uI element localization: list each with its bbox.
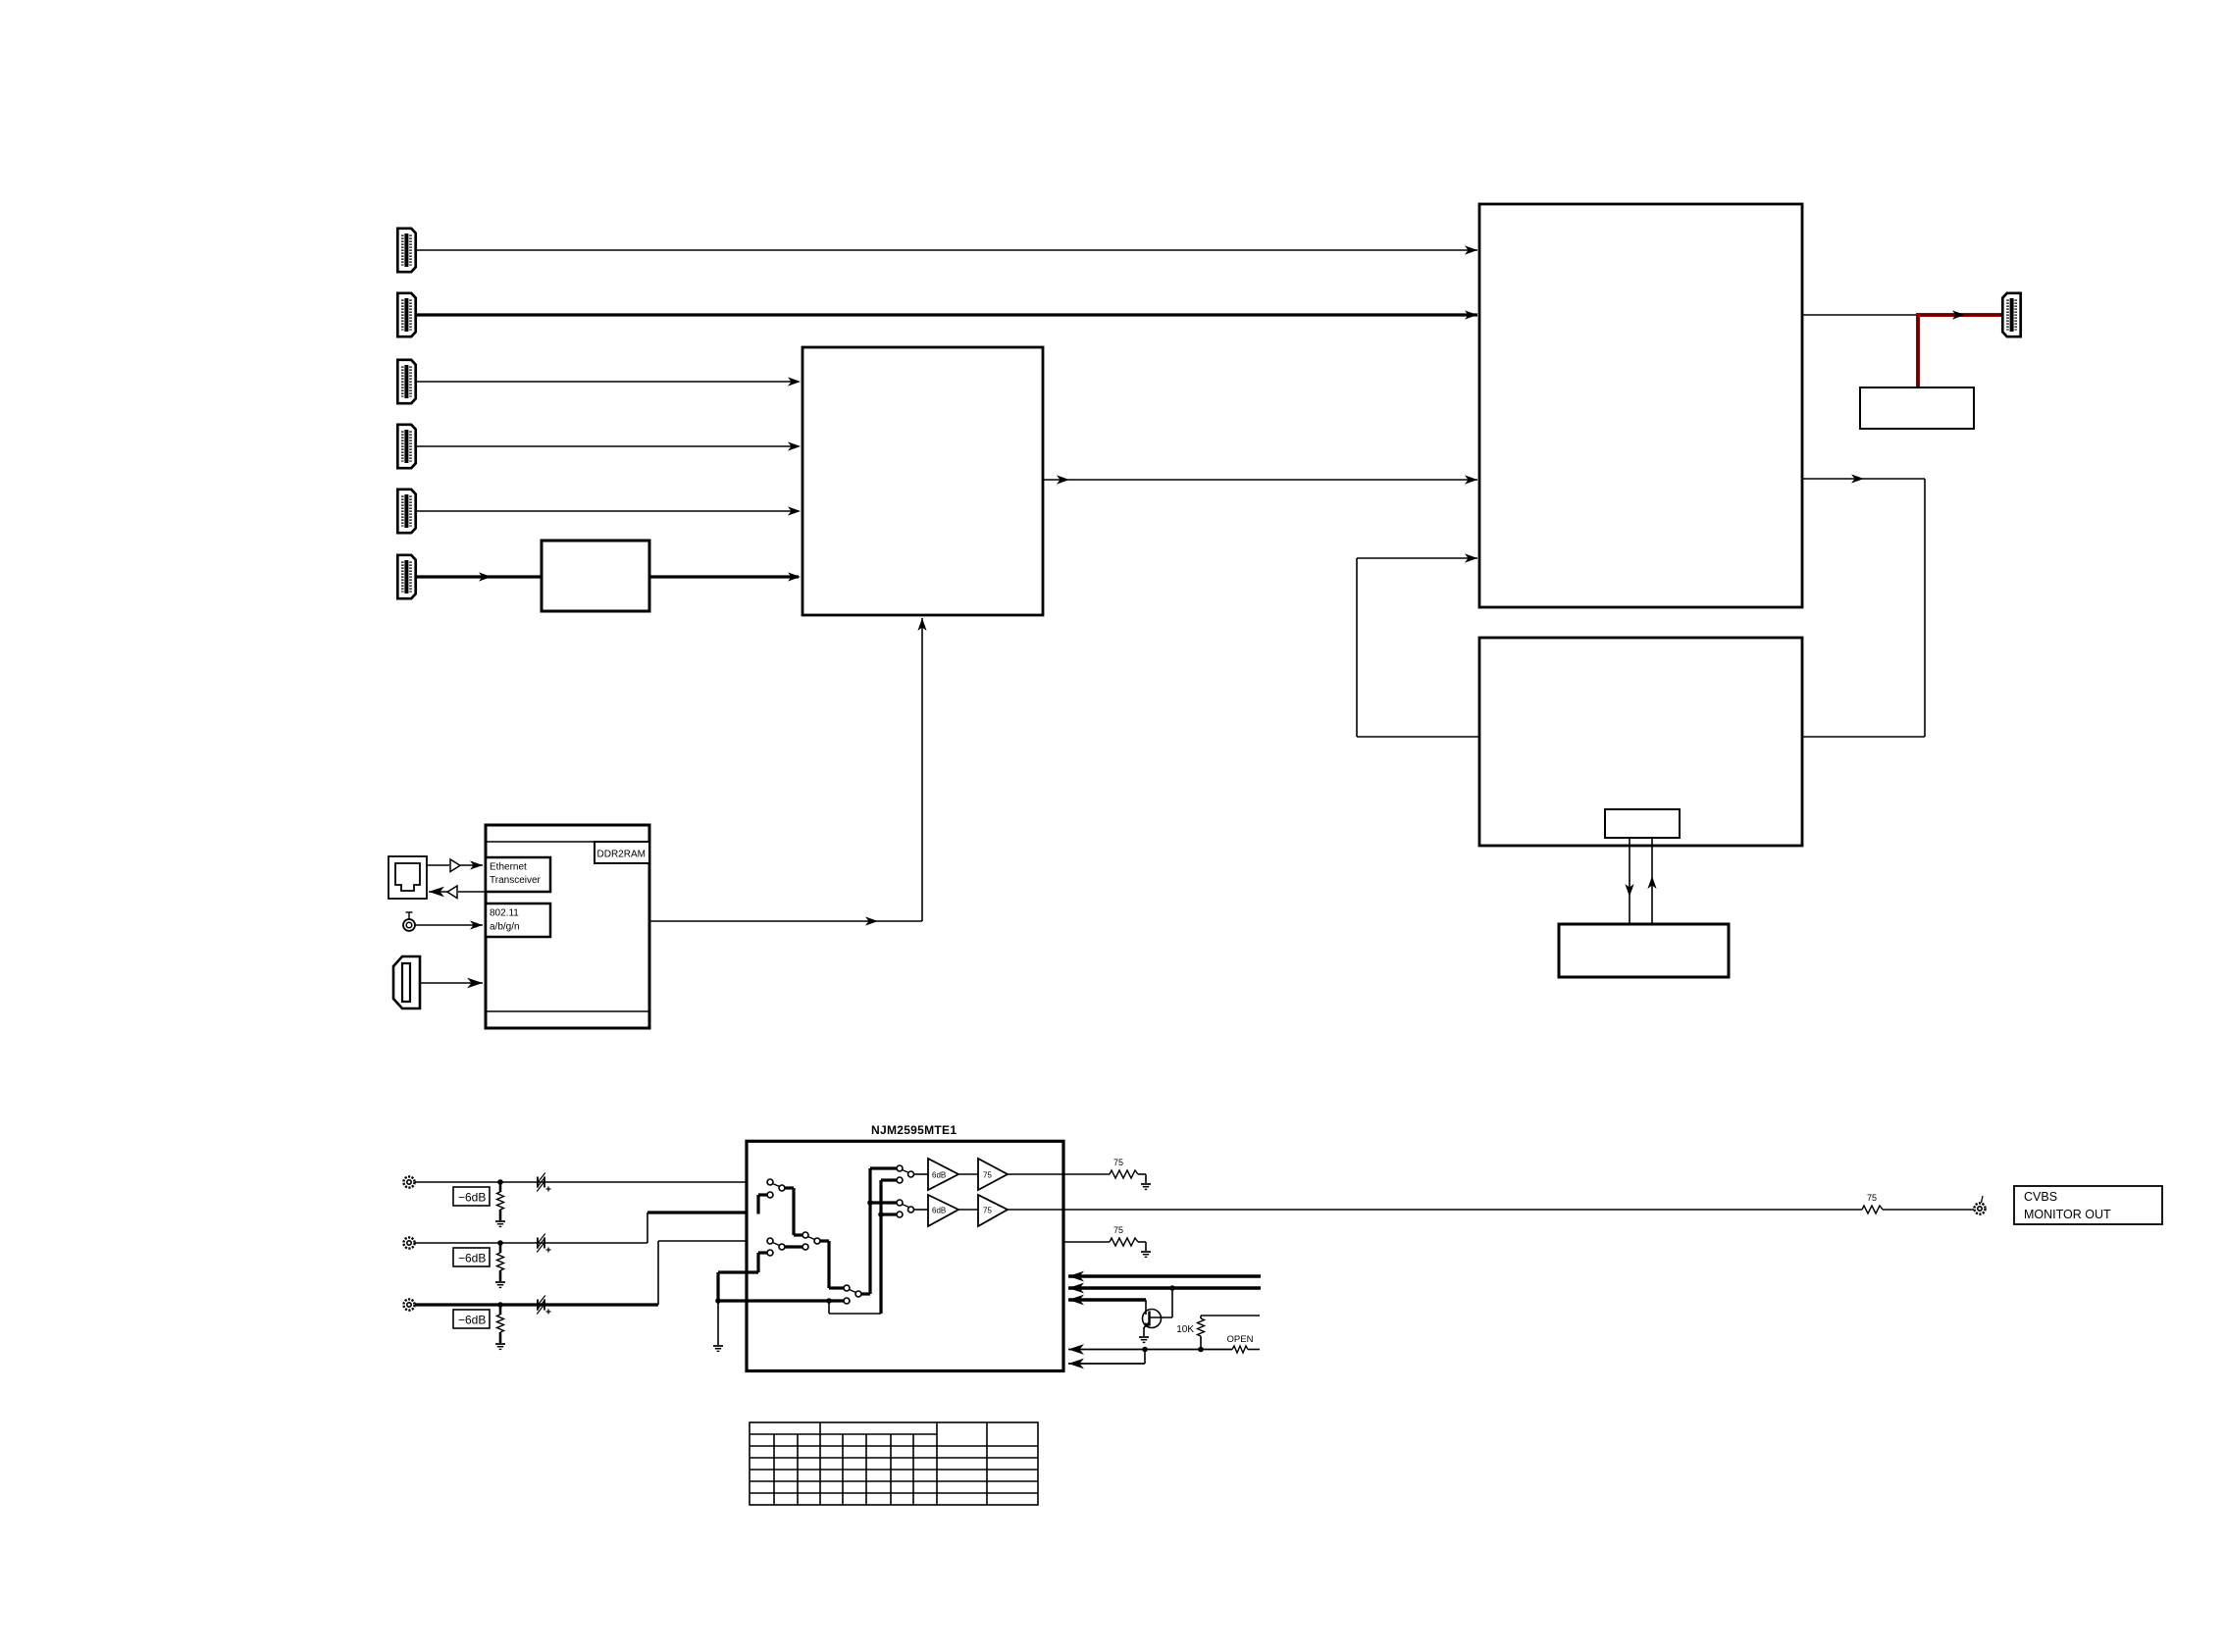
video switch IC U6 NJM2595MTE1	[747, 1141, 1063, 1370]
wire J13 toward NJM (bold)	[415, 1303, 658, 1306]
svg-text:Transceiver: Transceiver	[490, 875, 542, 886]
wire A1 to B1	[958, 1173, 978, 1175]
output selector row2 lever	[903, 1205, 909, 1208]
-6dB label box 2	[453, 1248, 490, 1266]
wire U4 to flash box (down)	[1629, 838, 1630, 924]
output selector row2 common	[897, 1200, 903, 1206]
network controller block U5	[486, 825, 649, 1028]
switch SW2a lower contact	[767, 1250, 773, 1256]
HDMI receiver block U2	[802, 347, 1043, 615]
RJ45 connector J8	[388, 856, 427, 899]
RCA jack J14 CVBS monitor	[1974, 1203, 1985, 1213]
switch SW2b common contact	[802, 1232, 808, 1238]
ground R4	[1141, 1184, 1151, 1189]
junction P2 collector	[1169, 1285, 1175, 1291]
wire P5 up to P4	[1144, 1350, 1146, 1365]
control wire P5	[1068, 1363, 1145, 1365]
svg-text:−6dB: −6dB	[458, 1191, 486, 1205]
junction input3	[497, 1302, 503, 1308]
switch SW2b lever	[808, 1237, 815, 1240]
riser1 to output selector	[868, 1168, 871, 1294]
wire J5 to U2 receiver	[417, 510, 799, 512]
RCA jack J13 (video in 3)	[403, 1299, 414, 1310]
RCA jack J11 (video in 1)	[403, 1176, 414, 1187]
termination resistor R3	[499, 1305, 502, 1315]
HDMI side connector J10	[393, 956, 420, 1008]
amp B1 75 driver	[978, 1159, 1008, 1190]
HDMI input connector J5	[397, 490, 415, 533]
riser1 top feed	[870, 1166, 897, 1169]
flash memory box	[1559, 924, 1729, 977]
wire R5 to CVBS jack	[1883, 1209, 1974, 1211]
svg-text:75: 75	[1113, 1158, 1123, 1167]
wire after OPEN	[1248, 1349, 1260, 1351]
wire U3 HDMI output (black segment)	[1802, 314, 1918, 316]
svg-text:OPEN: OPEN	[1227, 1334, 1254, 1345]
wire J10 to U5	[420, 982, 483, 984]
CVBS MONITOR OUT label box	[2014, 1186, 2162, 1224]
amp B2 75 driver	[978, 1195, 1008, 1226]
HDMI input connector J2	[397, 293, 415, 336]
revision table	[750, 1422, 1038, 1505]
wire input3 jog	[657, 1241, 659, 1305]
DDR2RAM label box	[595, 842, 649, 863]
wire U3 second output to memory block	[1802, 478, 1925, 480]
junction riser1 row2	[867, 1200, 873, 1206]
ground symbol node	[713, 1346, 723, 1351]
wire HDMI out net (red highlighted)	[1918, 313, 2001, 317]
amp A1 6dB	[928, 1159, 958, 1190]
svg-text:a/b/g/n: a/b/g/n	[490, 922, 520, 933]
U5 bottom inner rail	[486, 1010, 649, 1012]
resistor R7 OPEN	[1232, 1346, 1248, 1353]
svg-text:75: 75	[983, 1207, 992, 1215]
-6dB label box 1	[453, 1187, 490, 1206]
wire riser2 to row2 lower	[881, 1213, 897, 1215]
svg-text:DDR2RAM: DDR2RAM	[597, 850, 646, 860]
wire U1 to U2 receiver (bold)	[649, 575, 799, 578]
junction riser2 row2	[878, 1212, 884, 1217]
control wire P4	[1068, 1349, 1232, 1351]
control wire P1 (bold)	[1068, 1274, 1261, 1277]
riser2 top feed	[881, 1178, 897, 1181]
tx buffer triangle	[450, 859, 460, 872]
switch SW2a common contact	[767, 1238, 773, 1244]
coupling cap C2 (diagonal)	[537, 1238, 539, 1249]
junction input1	[497, 1179, 503, 1185]
wire output1 to R4	[1008, 1173, 1110, 1175]
termination resistor R2	[499, 1243, 502, 1253]
svg-text:6dB: 6dB	[932, 1171, 946, 1180]
box under output connector	[1860, 387, 1974, 429]
output selector row1 lower	[897, 1177, 903, 1183]
wire SW2b out to SW3 common	[820, 1239, 829, 1242]
svg-text:MONITOR OUT: MONITOR OUT	[2024, 1208, 2111, 1221]
wire 10K top	[1200, 1316, 1202, 1318]
wire CVBS monitor out (long)	[1008, 1209, 1862, 1211]
U5 top inner rail	[486, 841, 649, 843]
ground R2	[495, 1282, 505, 1287]
switch SW2a throw contact	[802, 1244, 808, 1250]
wire RJ45 tx to buffer	[427, 864, 449, 866]
main processor block U3	[1479, 204, 1802, 607]
resistor R5 75 (series)	[1862, 1206, 1883, 1213]
switch SW3 common contact	[844, 1285, 850, 1291]
wire A2 to B2	[958, 1209, 978, 1211]
wire R4 to ground	[1138, 1173, 1146, 1175]
coupling cap C3 (diagonal)	[537, 1300, 539, 1311]
RCA jack J12 (video in 2)	[403, 1237, 414, 1248]
wire row2 to 6dB amp	[914, 1209, 929, 1211]
amp A2 6dB	[928, 1195, 958, 1226]
svg-text:10K: 10K	[1176, 1324, 1194, 1335]
wire input2 to SW1 lower	[756, 1195, 759, 1214]
HDMI input connector J1	[397, 229, 415, 272]
wire riser1 to row2 common	[870, 1201, 897, 1204]
equalizer block U1	[542, 541, 649, 611]
wire input2 jog	[647, 1213, 648, 1243]
wire P3 to Q1 base	[1145, 1300, 1147, 1315]
ground R1	[495, 1221, 505, 1226]
resistor R8 10K	[1200, 1336, 1202, 1350]
switch SW2a lever	[773, 1243, 780, 1246]
wire ground node to SW2a lower	[716, 1272, 719, 1301]
wire R6 to ground	[1138, 1241, 1146, 1243]
rx buffer triangle	[447, 886, 457, 899]
wire J6 to equalizer block (bold)	[417, 575, 542, 578]
junction P4 10K	[1198, 1347, 1204, 1353]
svg-text:Ethernet: Ethernet	[490, 862, 527, 873]
switch SW1 lower contact	[767, 1192, 773, 1198]
Ethernet Transceiver box	[486, 857, 550, 892]
HDMI input connector J3	[397, 360, 415, 403]
junction at SW3 branch	[826, 1298, 832, 1304]
HDMI input connector J6	[397, 555, 415, 598]
transistor Q1	[1143, 1310, 1162, 1328]
svg-text:−6dB: −6dB	[458, 1314, 486, 1327]
wire SW1 out riser	[785, 1186, 794, 1189]
wire output3 to R6	[1063, 1241, 1110, 1243]
wire J4 to U2 receiver	[417, 445, 799, 447]
wire SW3 branch down to riser2	[828, 1301, 830, 1314]
feedback wire memory block to U3	[1357, 736, 1479, 738]
wire Q1 emitter to ground	[1143, 1327, 1145, 1336]
wire rx buffer to RJ45	[429, 891, 447, 893]
junction ground node	[715, 1298, 721, 1304]
riser2 to output selector	[879, 1180, 882, 1314]
junction P4 drop	[1142, 1347, 1148, 1353]
svg-text:802.11: 802.11	[490, 908, 519, 919]
svg-text:75: 75	[983, 1171, 992, 1180]
switch SW3 lower contact	[844, 1298, 850, 1304]
wire J11 to NJM switch	[415, 1181, 767, 1183]
ground R6	[1141, 1252, 1151, 1257]
-6dB label box 3	[453, 1310, 490, 1328]
wire U2 output to U3	[1043, 479, 1477, 481]
wire Ethernet box to rx buffer	[458, 891, 486, 893]
control wire P3 (bold)	[1068, 1298, 1146, 1301]
wire J2 to U3 (bold)	[417, 313, 1477, 316]
output selector row1 lever	[903, 1170, 909, 1173]
switch SW1 common contact	[767, 1179, 773, 1185]
coupling cap C1 (diagonal)	[537, 1177, 539, 1188]
wire network block to U2 bottom	[649, 920, 922, 922]
wire antenna to 802.11 box	[415, 924, 483, 926]
antenna connector J9	[403, 919, 415, 931]
svg-text:6dB: 6dB	[932, 1207, 946, 1215]
wire Q1 collector to P2	[1171, 1288, 1173, 1317]
resistor R4 75	[1110, 1170, 1138, 1178]
HDMI output connector J7	[2002, 293, 2020, 336]
switch SW3 lever	[850, 1290, 856, 1293]
wire node to SW3 (bold)	[718, 1299, 844, 1302]
ground stub of node	[717, 1301, 719, 1345]
junction input2	[497, 1240, 503, 1246]
HDMI input connector J4	[397, 425, 415, 468]
output selector row2 lower	[897, 1212, 903, 1217]
wire buffer to Ethernet box	[460, 864, 483, 866]
switch SW1 lever	[773, 1184, 780, 1187]
svg-text:75: 75	[1867, 1193, 1877, 1203]
termination resistor R1	[499, 1182, 502, 1192]
inner interface box of U4	[1605, 809, 1680, 838]
ground Q1	[1139, 1337, 1149, 1342]
wire flash box to U4 (up)	[1651, 838, 1653, 924]
802.11 a/b/g/n box	[486, 903, 550, 937]
wire row1 to 6dB amp	[914, 1173, 929, 1175]
wire SW3 lever to riser1	[861, 1292, 870, 1295]
svg-text:−6dB: −6dB	[458, 1252, 486, 1265]
svg-text:NJM2595MTE1: NJM2595MTE1	[871, 1123, 957, 1137]
control wire P2 (bold)	[1068, 1286, 1261, 1289]
output selector row1 common	[897, 1165, 903, 1171]
wire J3 to U2 receiver	[417, 381, 799, 383]
svg-text:75: 75	[1113, 1225, 1123, 1235]
wire SW2a lever to throw (bold)	[785, 1245, 802, 1248]
memory block U4	[1479, 638, 1802, 846]
svg-text:CVBS: CVBS	[2024, 1190, 2057, 1204]
ground R3	[495, 1344, 505, 1349]
resistor R6 75	[1110, 1238, 1138, 1246]
wire J12 toward NJM	[415, 1242, 647, 1244]
wire J1 to U3 video processor	[417, 249, 1477, 251]
